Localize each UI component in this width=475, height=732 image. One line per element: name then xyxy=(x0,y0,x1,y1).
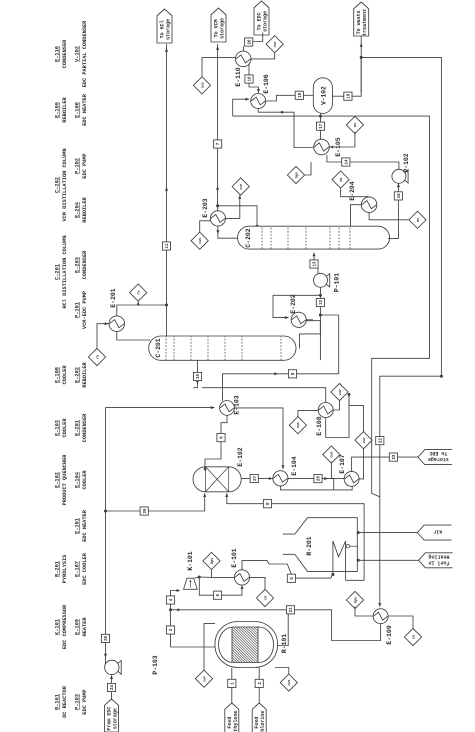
svg-text:hps: hps xyxy=(210,558,215,564)
stream box 18 xyxy=(295,91,303,99)
svg-text:E-202: E-202 xyxy=(290,294,297,313)
feed flag From EDC storage xyxy=(105,699,119,732)
svg-text:E-101: E-101 xyxy=(75,518,81,534)
stream box 4 xyxy=(166,596,174,604)
svg-text:CONDENSER: CONDENSER xyxy=(62,39,68,68)
wire VCM product line E-203 to storage flag (ly 217.6) xyxy=(217,44,219,211)
wire E-102 bottoms to E-104 via box 27 xyxy=(241,478,250,480)
svg-text:17: 17 xyxy=(320,123,324,129)
svg-text:cwr: cwr xyxy=(202,676,207,682)
svg-text:cws: cws xyxy=(288,680,292,686)
svg-text:P-101: P-101 xyxy=(334,273,341,292)
svg-text:cwr: cwr xyxy=(338,389,343,395)
svg-text:storage: storage xyxy=(113,708,119,729)
svg-text:E-110: E-110 xyxy=(55,46,61,62)
svg-text:R-201: R-201 xyxy=(55,561,61,577)
svg-text:E-106: E-106 xyxy=(263,74,270,93)
off-page flag To EDC storage (top right) xyxy=(254,1,269,35)
svg-text:P-102: P-102 xyxy=(75,158,81,174)
svg-text:ms: ms xyxy=(417,218,421,222)
wire E-110 to EDC storage flag via box 26 xyxy=(243,46,245,51)
svg-text:18: 18 xyxy=(299,92,303,98)
svg-text:hps: hps xyxy=(294,172,299,178)
svg-text:E-103: E-103 xyxy=(234,395,241,414)
wire E-204 to condensate diamond xyxy=(369,213,409,220)
CWR diamond at E-107 xyxy=(355,432,372,449)
stream box 19 xyxy=(344,92,352,100)
svg-text:21: 21 xyxy=(290,607,294,613)
compressor K-101 xyxy=(184,578,198,589)
wire V-102 bottoms to waste junction via box 19 xyxy=(332,95,343,97)
svg-text:E-102: E-102 xyxy=(55,472,61,488)
wire E-106 to V-102 via box 18 xyxy=(266,95,295,101)
heat exchanger E-106 xyxy=(251,94,266,109)
svg-text:EDC PUMP: EDC PUMP xyxy=(82,689,88,714)
svg-text:C-202: C-202 xyxy=(245,228,252,247)
wire E-108 to CWR xyxy=(333,401,339,410)
cooling water supply diamond CWS at R-101 xyxy=(280,674,297,691)
stream box 7 on VCM line xyxy=(214,140,222,148)
svg-text:EDC COMPRESSOR: EDC COMPRESSOR xyxy=(62,604,68,649)
wire E-103 to E-104 xyxy=(234,408,283,469)
steam diamond lps at E-204 xyxy=(332,171,349,188)
svg-text:COOLER: COOLER xyxy=(82,470,88,490)
wire E-106 to E-105 train xyxy=(258,109,313,148)
steam diamond at E-109 top xyxy=(346,591,363,608)
svg-text:E-108: E-108 xyxy=(316,416,323,435)
condensate diamond at E-101 xyxy=(256,589,273,606)
wire feed chlorine to R-101 xyxy=(258,668,260,703)
pump P-101 xyxy=(314,273,328,287)
svg-text:26: 26 xyxy=(248,39,252,45)
svg-text:25: 25 xyxy=(105,635,109,641)
svg-text:27: 27 xyxy=(254,476,258,482)
cooling water return diamond CWR at R-101 xyxy=(195,670,212,687)
wire recycle line to E-109 from ly-441 (lx 355.8) junction xyxy=(440,375,443,378)
svg-text:24: 24 xyxy=(111,685,115,691)
svg-text:E-109: E-109 xyxy=(386,625,393,644)
svg-text:E-107: E-107 xyxy=(75,561,81,577)
svg-text:cd: cd xyxy=(411,635,416,639)
wire R-101 outlet to stream 21 line xyxy=(275,610,289,646)
wire steam diamond to E-109 top xyxy=(355,607,373,617)
svg-text:P-103: P-103 xyxy=(152,655,159,674)
stream box 3 xyxy=(166,626,174,634)
pump P-102 xyxy=(392,169,406,183)
svg-text:HEATER: HEATER xyxy=(82,617,88,637)
svg-text:C-201: C-201 xyxy=(155,338,162,357)
svg-text:To EDC: To EDC xyxy=(429,450,447,456)
utility flag air (vertical) xyxy=(417,525,451,540)
wire P-102 discharge to E-105 via box 14 xyxy=(350,162,399,169)
svg-text:REBOILER: REBOILER xyxy=(82,196,88,222)
svg-text:EDC COOLER: EDC COOLER xyxy=(82,552,88,585)
wire HCl product line from C-201 to storage flag (ly 166.5) xyxy=(166,44,168,336)
stream box 10 xyxy=(193,372,201,380)
refrigerant return diamond at E-201 xyxy=(130,284,147,301)
pump P-103 EDC feed pump xyxy=(105,660,119,674)
svg-text:E-201: E-201 xyxy=(75,420,81,436)
stream box 23 xyxy=(389,453,397,461)
wire E-101 outlet to furnace coil (with jog) xyxy=(242,561,291,575)
svg-text:20: 20 xyxy=(144,508,148,514)
svg-text:ms: ms xyxy=(354,123,358,127)
wire E-107 outlet to EDC storage flag via box 23 xyxy=(352,457,390,471)
stream box 13 and line into C-202 xyxy=(310,260,318,268)
svg-text:13: 13 xyxy=(314,261,318,267)
CWS diamond at E-203 xyxy=(191,232,208,249)
CWS diamond at E-110 xyxy=(193,77,210,94)
svg-text:E-108: E-108 xyxy=(55,367,61,383)
CWS diamond at E-108 xyxy=(289,417,306,434)
wire CWS to E-110 top xyxy=(202,57,235,76)
wire E-201 reflux to C-201 top xyxy=(117,332,150,340)
stream box 11 on HCl line xyxy=(162,242,170,250)
feed flag Feed Ethylene xyxy=(225,703,239,732)
stream box 14 xyxy=(342,158,350,166)
svg-text:cws: cws xyxy=(201,82,205,88)
column C-201 trays (dashed) xyxy=(165,336,167,360)
CWR diamond at E-110 xyxy=(266,36,283,53)
reactor R-101 catalyst bed hatched band xyxy=(231,627,233,663)
svg-text:treatment: treatment xyxy=(362,9,368,36)
wire CWS to E-107 top xyxy=(331,462,344,479)
reactor R-101 outer shell xyxy=(215,622,278,668)
stream box 8 xyxy=(288,370,296,378)
wire E-101 bottom to condensate diamond xyxy=(250,577,265,589)
column C-202 xyxy=(238,226,390,249)
wire hps steam line to E-101 top xyxy=(212,570,235,578)
wire E-108 left loop xyxy=(326,395,349,438)
svg-text:Heating: Heating xyxy=(428,553,449,559)
wire CWS to R-101 shell xyxy=(275,668,289,675)
wire E-203 reflux to C-202 cap xyxy=(218,226,238,238)
svg-text:E-107: E-107 xyxy=(339,454,346,473)
stream box 1 xyxy=(228,679,236,687)
svg-text:PYROLYSIS: PYROLYSIS xyxy=(62,554,68,583)
svg-text:EDC PUMP: EDC PUMP xyxy=(82,153,88,178)
heat exchanger E-104 xyxy=(273,471,288,486)
svg-text:REBOILER: REBOILER xyxy=(62,96,68,122)
svg-text:E-103: E-103 xyxy=(55,420,61,436)
wire E-202 return to column bottom cap xyxy=(300,321,321,349)
svg-text:16: 16 xyxy=(249,76,253,82)
wire waste treatment line from V-102 junction xyxy=(360,36,362,92)
svg-text:E-204: E-204 xyxy=(75,201,81,218)
svg-text:E-202: E-202 xyxy=(75,367,81,383)
svg-text:storage: storage xyxy=(428,456,449,462)
svg-text:Chlorine: Chlorine xyxy=(260,711,266,732)
stream box 20 on quench line xyxy=(140,507,148,515)
svg-text:cwr: cwr xyxy=(362,437,367,443)
svg-text:12: 12 xyxy=(320,300,324,306)
wire E-109 bottom to condensate diamond xyxy=(388,616,413,628)
stream box 6 xyxy=(213,591,221,599)
hps diamond near E-105 xyxy=(287,166,304,183)
svg-text:storage: storage xyxy=(263,11,269,32)
wire E-107 CWR top corner piping xyxy=(349,395,364,432)
wire C-202 overhead vapor to E-203/VCM line xyxy=(218,206,257,226)
svg-text:DC REACTOR: DC REACTOR xyxy=(62,685,68,718)
stream box 17 xyxy=(316,122,324,130)
heat exchanger E-107 xyxy=(344,471,359,486)
wire E-107 to CWR xyxy=(359,449,364,479)
wire hps diamond stub xyxy=(305,162,311,175)
stream box 28 xyxy=(314,475,322,483)
column C-202 trays (dashed) xyxy=(261,226,263,249)
svg-text:COOLER: COOLER xyxy=(62,418,68,438)
condensate diamond at E-204 xyxy=(409,211,426,228)
CWS diamond at E-107 xyxy=(323,446,340,463)
svg-text:fuel in: fuel in xyxy=(428,559,449,565)
svg-text:K-101: K-101 xyxy=(55,619,61,635)
condenser E-203 xyxy=(210,211,225,226)
reactor R-101 inner vessel xyxy=(219,627,274,663)
off-page flag To HCl storage xyxy=(157,9,172,43)
svg-text:PRODUCT QUENCHER: PRODUCT QUENCHER xyxy=(62,454,68,506)
svg-text:10: 10 xyxy=(197,374,201,380)
feed flag Feed Chlorine xyxy=(252,703,266,732)
furnace coil (zigzag tube) xyxy=(333,541,346,580)
wire E-103 gas to E-108 via box 8 (lx 358) xyxy=(223,374,289,401)
wire V-102 liquid line down (lx 615.9) joining bottoms header ly 429.5 xyxy=(233,116,430,497)
svg-text:K-101: K-101 xyxy=(187,551,194,570)
wire CWS to E-108 top xyxy=(298,411,319,417)
stream box 9 xyxy=(217,434,225,442)
svg-text:28: 28 xyxy=(318,476,322,482)
svg-text:EDC HEATER: EDC HEATER xyxy=(82,93,88,126)
svg-text:REBOILER: REBOILER xyxy=(82,361,88,387)
CWR diamond at E-108 xyxy=(331,383,348,400)
stream box 27 xyxy=(250,474,258,482)
svg-text:E-203: E-203 xyxy=(75,257,81,273)
reboiler E-204 xyxy=(361,197,377,213)
svg-text:P-101: P-101 xyxy=(75,302,81,318)
svg-text:air: air xyxy=(433,529,442,535)
wire CWS to E-203 top xyxy=(200,221,211,232)
svg-text:P-102: P-102 xyxy=(403,153,410,172)
wire E-203 to CWR xyxy=(226,195,240,218)
svg-text:C-202: C-202 xyxy=(55,177,61,193)
reboiler E-105 xyxy=(314,139,330,155)
condensate diamond at E-109 xyxy=(404,628,421,645)
quencher E-102 vessel with X internals xyxy=(193,467,241,492)
wire E-202 feed elbow from header xyxy=(273,295,289,317)
svg-text:V-102: V-102 xyxy=(75,46,81,62)
wire K-101 discharge junction xyxy=(195,577,243,595)
svg-text:cwr: cwr xyxy=(239,183,244,189)
svg-text:E-102: E-102 xyxy=(237,447,244,466)
wire E-204 return to C-202 bottom xyxy=(351,205,362,227)
svg-text:CONDENSER: CONDENSER xyxy=(82,413,88,442)
svg-text:23: 23 xyxy=(393,454,397,460)
refrigerant supply diamond at E-201 xyxy=(88,348,105,365)
svg-text:CONDENSER: CONDENSER xyxy=(82,250,88,279)
condenser E-201 xyxy=(109,316,125,332)
stream box 12 xyxy=(316,298,324,306)
svg-text:E-204: E-204 xyxy=(349,181,356,200)
svg-text:VCM-EDC PUMP: VCM-EDC PUMP xyxy=(82,291,88,329)
svg-text:VCM DISTILLATION COLUMN: VCM DISTILLATION COLUMN xyxy=(62,148,68,221)
svg-text:E-104: E-104 xyxy=(75,471,81,488)
wire CWR to R-101 shell xyxy=(204,624,215,671)
svg-text:R-201: R-201 xyxy=(306,536,313,555)
wire EDC header down into E-103 top (lx 324.4) xyxy=(106,407,215,409)
svg-text:14: 14 xyxy=(345,159,349,165)
svg-text:EDC PARTIAL CONDENSER: EDC PARTIAL CONDENSER xyxy=(82,20,88,88)
wire E-104 to E-107 via box 28 xyxy=(288,478,314,480)
wire E-109 outlet loop to K-101 suction (stream 21 line) xyxy=(171,610,381,641)
svg-text:E-105: E-105 xyxy=(55,102,61,118)
svg-text:V-102: V-102 xyxy=(321,86,328,105)
svg-text:C-201: C-201 xyxy=(55,264,61,280)
wire E-201 outlet to HCl line junction xyxy=(117,305,167,316)
wire E-202 bottom leg xyxy=(306,319,313,321)
wire C-201 bottoms draw to E-202/P-101 header xyxy=(319,287,321,360)
wire P-103 discharge to EDC header xyxy=(105,660,107,664)
stream box 15 xyxy=(394,192,402,200)
off-page flag To EDC storage (bottom, vertical) xyxy=(418,450,452,465)
wire E-110 to box 16 to E-106 xyxy=(248,64,250,75)
svg-text:ms: ms xyxy=(340,178,344,182)
off-page flag To VCM storage xyxy=(211,8,226,42)
stream box 5 xyxy=(287,574,295,582)
svg-text:storage: storage xyxy=(220,18,226,39)
svg-text:cwr: cwr xyxy=(273,41,278,47)
steam diamond hps at K-101/E-101 xyxy=(203,552,220,569)
wire steam diamond to E-105 xyxy=(330,132,355,147)
wire E-106 feed elbow from recycle header top xyxy=(233,99,250,116)
furnace R-201 body with stack xyxy=(283,518,358,572)
stream box 21 on recycle xyxy=(286,606,294,614)
wire heating fuel line into furnace bottom xyxy=(359,559,419,561)
wire P-101 discharge up to C-202 via box 13 xyxy=(314,264,318,273)
column C-201 xyxy=(149,336,296,360)
wire coil outlet under furnace to quencher xyxy=(227,493,364,580)
svg-text:cws: cws xyxy=(199,238,203,244)
wire From EDC storage to P-103 xyxy=(111,675,113,699)
wire rw return tap xyxy=(137,302,139,305)
stream box 26 near EDC flag xyxy=(245,38,253,46)
heat exchanger E-108 xyxy=(318,403,333,418)
svg-text:15: 15 xyxy=(398,193,402,199)
svg-text:R-101: R-101 xyxy=(55,694,61,710)
svg-text:E-110: E-110 xyxy=(235,67,242,86)
wire E-108 outlet to C-201 feed via box 10 xyxy=(202,388,326,403)
vessel V-102 horizontal drum xyxy=(313,78,332,114)
svg-text:cd: cd xyxy=(263,596,268,600)
burner circle xyxy=(346,545,349,548)
wire C-202 bottoms to P-102 via box 15 xyxy=(388,200,398,238)
svg-text:E-203: E-203 xyxy=(202,198,209,217)
wire quench EDC branch down to E-102 (lx 221) xyxy=(106,493,205,511)
svg-text:HCl DISTILLATION COLUMN: HCl DISTILLATION COLUMN xyxy=(62,235,68,308)
stream box 24 xyxy=(107,683,115,691)
svg-text:E-104: E-104 xyxy=(291,456,298,475)
svg-text:hps: hps xyxy=(353,597,358,603)
svg-text:cws: cws xyxy=(331,452,335,458)
svg-text:E-201: E-201 xyxy=(110,288,117,307)
wire air line into furnace bottom xyxy=(359,532,418,534)
svg-text:E-106: E-106 xyxy=(75,102,81,118)
condenser E-110 xyxy=(235,51,251,67)
svg-text:E-101: E-101 xyxy=(231,548,238,567)
svg-text:storage: storage xyxy=(166,19,172,40)
wire box 5 to furnace coil inlet xyxy=(296,574,333,578)
svg-text:E-109: E-109 xyxy=(75,619,81,635)
off-page flag To waste treatment xyxy=(354,2,369,36)
svg-text:19: 19 xyxy=(348,93,352,99)
wire EDC feed header from P-103 (ly 104.7) xyxy=(105,408,107,660)
svg-text:EDC HEATER: EDC HEATER xyxy=(82,509,88,542)
wire rw supply to E-201 top xyxy=(97,324,109,349)
junction dot on bottoms header xyxy=(319,314,322,317)
heat exchanger E-103 xyxy=(220,401,235,416)
wire into R-101 top xyxy=(171,646,216,648)
wire feed ethylene to R-101 xyxy=(231,668,233,703)
svg-text:P-103: P-103 xyxy=(75,694,81,710)
svg-text:cws: cws xyxy=(297,422,301,428)
wire lps steam to E-204 top xyxy=(341,188,369,197)
utility flag Heating fuel in (vertical) xyxy=(419,553,453,568)
stream box 8 on cracked gas line xyxy=(263,500,271,508)
wire quencher overhead to E-103 via box 9 xyxy=(205,442,221,471)
svg-text:Ethylene: Ethylene xyxy=(233,711,239,732)
stream box 22 on recycle line to E-109 xyxy=(376,437,384,445)
steam diamond at E-105 xyxy=(346,116,363,133)
heat exchanger E-109 xyxy=(373,609,388,624)
stream box 2 xyxy=(255,679,263,687)
wire big recycle: V-102 junction down and left (lx 674.6 / ly 441.4) xyxy=(361,57,441,606)
svg-text:R-101: R-101 xyxy=(281,634,288,653)
wire E-104 left leg joining E-107 inlet xyxy=(280,486,333,490)
wire recycle header to box4 and box3 xyxy=(170,634,172,647)
wire V-102 liquid to E-105 via box 17 xyxy=(320,114,322,122)
svg-text:11: 11 xyxy=(166,243,170,249)
CWR diamond at E-203/C-202 xyxy=(232,178,249,195)
svg-text:COOLER: COOLER xyxy=(62,365,68,385)
reboiler E-202 xyxy=(291,312,306,327)
wire box8 line joining header xyxy=(320,314,338,316)
wire E-110 to CWR xyxy=(251,53,275,59)
svg-text:22: 22 xyxy=(379,438,383,444)
heat exchanger E-101 xyxy=(234,570,249,585)
stream box 25 xyxy=(101,634,109,642)
stream box 16 xyxy=(245,75,253,83)
